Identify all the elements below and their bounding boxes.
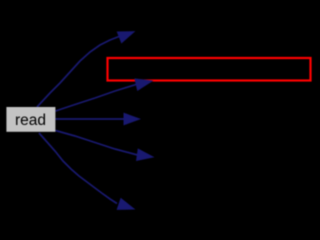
arrowhead 4: [137, 149, 153, 160]
arrowhead 2: [135, 79, 152, 90]
arrowhead 3: [124, 113, 140, 124]
arrowhead 5: [117, 199, 134, 210]
svg-text:read: read: [15, 112, 46, 129]
node read (root, grey filled): [6, 107, 55, 132]
edge 1 (read -> top node) wire: [37, 37, 119, 108]
truncated node box (red border, black fill): [108, 58, 311, 81]
edge 2 (read -> red truncated node) wire: [56, 84, 138, 111]
edge 4 (read -> fourth node) wire: [56, 131, 138, 156]
arrowhead 1: [117, 32, 134, 43]
edge 5 (read -> bottom node) wire: [39, 133, 117, 204]
edge 3 (read -> middle node) wire: [56, 118, 125, 120]
